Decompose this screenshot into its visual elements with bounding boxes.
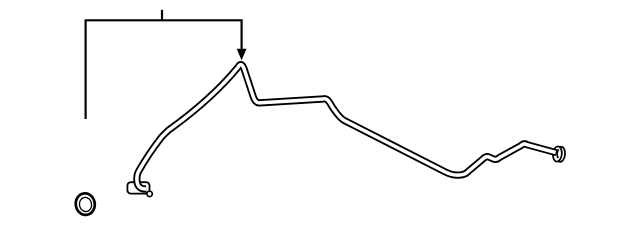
- callout bracket for item 1: [86, 20, 242, 119]
- small port circle on flange: [147, 191, 152, 196]
- pipe white core: [137, 65, 556, 189]
- label 1 tick: [161, 10, 163, 20]
- bore lip on end cap: [557, 149, 559, 158]
- O-ring: [74, 192, 96, 216]
- arrowhead: [237, 49, 247, 61]
- flange bracket at pipe end: [127, 182, 149, 193]
- end cap face: [552, 146, 562, 162]
- pipe outline: [137, 65, 557, 189]
- end cap rear rim: [555, 146, 565, 162]
